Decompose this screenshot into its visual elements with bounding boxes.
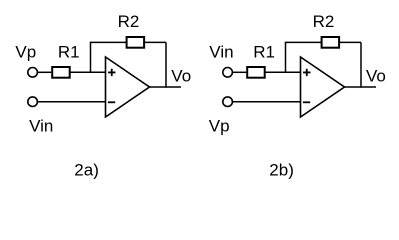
wire op-amp output to Vo (345, 86, 377, 88)
svg-text:R1: R1 (58, 43, 80, 62)
wire Vin terminal to op-amp - input (37, 101, 105, 103)
svg-text:Vp: Vp (15, 43, 36, 62)
svg-text:Vo: Vo (366, 67, 386, 86)
wire feedback top horizontal (285, 41, 361, 43)
op-amp U1 + input marker (108, 69, 115, 76)
svg-text:Vp: Vp (209, 117, 230, 136)
op-amp U1 - input marker (108, 101, 115, 103)
op-amp U2 + input marker (303, 69, 310, 76)
resistor R1 (2a) (52, 67, 69, 78)
resistor R2 (2b feedback) (322, 37, 340, 48)
wire R1 to op-amp + input (265, 71, 301, 73)
node Vp input terminal (2a) (28, 68, 38, 78)
node Vin input terminal (2a) (28, 97, 38, 107)
wire Vp terminal to R1 (37, 71, 51, 73)
svg-text:Vin: Vin (29, 117, 53, 136)
op-amp U1 (2a) triangle (106, 57, 150, 117)
wire Vp terminal to op-amp - input (232, 101, 300, 103)
wire R1 to op-amp + input (70, 71, 106, 73)
svg-text:R1: R1 (253, 43, 275, 62)
svg-text:Vin: Vin (209, 43, 233, 62)
resistor R1 (2b) (247, 67, 265, 78)
node Vin input terminal (2b) (223, 68, 233, 78)
wire feedback tap up from + input node (285, 42, 287, 73)
node Vp input terminal (2b) (223, 97, 233, 107)
svg-text:2a): 2a) (74, 161, 99, 180)
svg-text:R2: R2 (118, 12, 140, 31)
svg-text:Vo: Vo (171, 67, 191, 86)
svg-text:R2: R2 (313, 12, 335, 31)
wire feedback down to output node (165, 42, 167, 87)
op-amp U2 - input marker (303, 101, 310, 103)
wire feedback top horizontal (90, 41, 166, 43)
wire Vin terminal to R1 (232, 71, 246, 73)
wire feedback down to output node (360, 42, 362, 87)
wire op-amp output to Vo (150, 86, 182, 88)
resistor R2 (2a feedback) (127, 37, 145, 48)
wire feedback tap up from + input node (90, 42, 92, 73)
svg-text:2b): 2b) (269, 161, 294, 180)
op-amp U2 (2b) triangle (301, 57, 345, 117)
